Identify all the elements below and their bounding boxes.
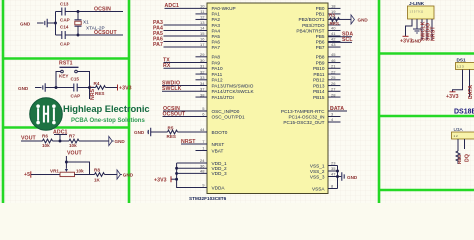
junction (NRST node)	[88, 81, 91, 100]
svg-text:PC13-TAMPER-RTC: PC13-TAMPER-RTC	[281, 109, 325, 114]
svg-text:J-LINK: J-LINK	[409, 1, 425, 6]
svg-text:PA7: PA7	[153, 42, 163, 48]
svg-text:GND: GND	[115, 139, 126, 144]
pin 20 PB2/BOOT1	[298, 15, 340, 23]
pin 9 VDDA	[202, 183, 225, 191]
pin 29 PA8	[200, 52, 220, 60]
svg-text:PC14-OSC32_IN: PC14-OSC32_IN	[289, 114, 325, 119]
pin 31 PA10	[200, 64, 223, 72]
svg-text:C15: C15	[71, 77, 80, 82]
ic name STM32F103C8T6	[189, 196, 227, 201]
svg-text:28: 28	[331, 92, 336, 97]
svg-text:1 2 3: 1 2 3	[457, 65, 464, 69]
pin 43 PB7	[316, 42, 341, 50]
svg-text:VSS_3: VSS_3	[310, 174, 325, 179]
pin 8 VSSA	[312, 184, 338, 192]
svg-text:40: 40	[331, 26, 336, 31]
svg-text:PB13: PB13	[313, 83, 325, 88]
pin 4 PC15-OSC32_OUT	[283, 117, 340, 125]
net label NRST (rotated)	[90, 85, 96, 100]
net label OCSOUT	[78, 30, 123, 36]
svg-text:10: 10	[200, 4, 205, 9]
svg-text:29: 29	[200, 52, 205, 57]
ground GND (crystal box)	[20, 19, 56, 28]
net label PA4	[153, 25, 207, 31]
pin 40 PB4/JNTRST	[296, 26, 340, 34]
junction vss rail dots	[336, 170, 339, 178]
svg-text:GND: GND	[123, 173, 134, 178]
svg-text:VDDA: VDDA	[212, 185, 226, 190]
svg-text:23: 23	[331, 161, 336, 166]
wire jlink pin4	[426, 19, 428, 40]
svg-text:44: 44	[200, 127, 205, 132]
wire VSS rail	[337, 166, 339, 189]
pin 10 PA0-WKUP	[200, 4, 236, 12]
svg-text:VSS_2: VSS_2	[310, 169, 325, 174]
svg-text:X1: X1	[83, 20, 89, 25]
resistor R9 (u3a, vertical)	[456, 151, 462, 164]
svg-text:21: 21	[331, 64, 336, 69]
svg-text:PA1: PA1	[212, 12, 221, 17]
pin 35 VSS_2	[310, 166, 338, 174]
junction (OCSOUT node)	[77, 34, 80, 37]
svg-text:VBAT: VBAT	[212, 148, 224, 153]
svg-text:12: 12	[200, 15, 205, 20]
net label TX	[163, 57, 207, 63]
capacitor C14	[56, 25, 79, 47]
net label PA5	[153, 31, 207, 37]
ic U3A title	[454, 127, 464, 132]
svg-text:GND: GND	[134, 130, 145, 135]
pin 6 OSC_OUT/PD1	[202, 112, 245, 120]
svg-text:R6: R6	[42, 134, 48, 139]
net label RX	[163, 63, 207, 69]
net label NRST (jlink, rotated)	[431, 26, 437, 41]
pin 13 PA3	[200, 20, 220, 28]
svg-text:PA5: PA5	[212, 34, 221, 39]
svg-text:41: 41	[331, 31, 336, 36]
power +3V3 (vdd)	[154, 176, 177, 183]
resistor R4	[90, 81, 118, 96]
ic U3A body	[452, 132, 474, 139]
wire jlink pin3	[421, 19, 423, 40]
wire u3a pin1	[457, 139, 459, 151]
svg-text:13: 13	[200, 20, 205, 25]
svg-text:47: 47	[331, 172, 336, 177]
svg-text:VSSA: VSSA	[312, 186, 325, 191]
pin 34 PA13/JTMS/SWDIO	[200, 81, 254, 89]
junction vdd rail dots	[175, 167, 178, 181]
logo watermark text	[63, 103, 150, 124]
svg-text:+5: +5	[24, 172, 30, 178]
junction (ADC1 node)	[59, 140, 62, 143]
pin 17 PA7	[200, 42, 220, 50]
svg-text:48: 48	[200, 169, 205, 174]
net label DATA	[330, 106, 347, 112]
svg-text:RES: RES	[330, 21, 339, 26]
net label DATA (ds1, rotated)	[468, 85, 474, 99]
svg-text:PB7: PB7	[316, 45, 325, 50]
svg-text:PB8: PB8	[316, 55, 325, 60]
net label NRST (mcu)	[181, 139, 207, 145]
svg-text:PA12: PA12	[212, 78, 224, 83]
pin stub PA15/JTDI	[196, 96, 208, 98]
wire ds1 pin1 to +3V3	[453, 70, 463, 92]
svg-text:OSC_IN/PD0: OSC_IN/PD0	[212, 109, 240, 114]
svg-text:PA14/JTCK/SWCLK: PA14/JTCK/SWCLK	[212, 89, 255, 94]
net label PA7	[153, 42, 207, 48]
pin stub PA8	[196, 56, 208, 58]
svg-text:+3V3: +3V3	[154, 177, 167, 183]
potentiometer VR1	[50, 164, 90, 177]
ground GND (vss)	[338, 172, 358, 181]
net label SWDIO (jlink, rotated)	[426, 23, 432, 41]
net label SWDIO	[162, 80, 207, 86]
power +3V3 (reset box)	[118, 85, 132, 92]
resistor R6	[21, 134, 67, 149]
wire GND to C15	[56, 87, 74, 89]
ic U1 STM32F103C8T6 body	[207, 3, 328, 194]
pin 32 PA11	[200, 69, 223, 77]
pin 1 VBAT	[196, 146, 224, 154]
svg-text:PC15-OSC32_OUT: PC15-OSC32_OUT	[283, 120, 324, 125]
svg-text:PA0-WKUP: PA0-WKUP	[212, 6, 236, 11]
ground GND arrow (R3)	[351, 15, 368, 24]
svg-text:1 2: 1 2	[454, 134, 459, 138]
net label ADC1	[165, 3, 208, 9]
ground GND (reset box)	[18, 83, 56, 92]
net label PA6	[153, 36, 207, 42]
net label VOUT (row1)	[21, 136, 37, 142]
junction (OCSIN node)	[77, 10, 80, 13]
power +5	[24, 171, 60, 178]
net label OCSIN (mcu)	[163, 106, 207, 112]
svg-text:DS18B20: DS18B20	[454, 109, 474, 116]
svg-text:BOOT0: BOOT0	[212, 130, 228, 135]
svg-text:34: 34	[200, 81, 205, 86]
capacitor C13	[56, 2, 79, 23]
pin 3 PC14-OSC32_IN	[289, 112, 341, 120]
svg-text:PB14: PB14	[313, 89, 325, 94]
resistor R8	[90, 168, 118, 183]
pin stub PA2	[196, 18, 208, 20]
section title DS18B20	[454, 109, 474, 116]
pin 42 PB6	[316, 37, 341, 45]
pin 37 PA14/JTCK/SWCLK	[200, 87, 254, 95]
pin stub PA11	[196, 73, 208, 75]
svg-text:37: 37	[200, 87, 205, 92]
pin 41 PB5	[316, 31, 341, 39]
pin 38 PA15/JTDI	[200, 92, 234, 100]
net label SWCLK (jlink, rotated)	[421, 21, 427, 41]
sensor DS1 title	[457, 58, 467, 63]
svg-text:22: 22	[331, 69, 336, 74]
net label OCSOUT (mcu)	[163, 111, 208, 117]
pin 12 PA2	[200, 15, 220, 23]
connector J-LINK title	[409, 1, 425, 6]
svg-text:PB6: PB6	[316, 39, 325, 44]
ground GND arrow (row1)	[103, 136, 125, 145]
ground GND arrow (row2)	[117, 170, 134, 179]
svg-text:PA4: PA4	[212, 28, 221, 33]
wire jlink pin5	[431, 19, 433, 40]
svg-text:32: 32	[200, 69, 205, 74]
svg-text:OSC_OUT/PD1: OSC_OUT/PD1	[212, 114, 245, 119]
svg-text:+3V3: +3V3	[119, 85, 132, 91]
svg-text:RES: RES	[457, 155, 462, 164]
svg-text:STM32F103C8T6: STM32F103C8T6	[189, 196, 227, 201]
svg-text:15: 15	[200, 31, 205, 36]
net label SCL	[328, 37, 353, 43]
svg-text:NRST: NRST	[212, 142, 225, 147]
svg-text:17: 17	[200, 42, 205, 47]
svg-text:PA6: PA6	[212, 39, 221, 44]
ground earth (jlink)	[411, 29, 422, 44]
power +3V3 (ds1)	[446, 92, 459, 100]
svg-text:46: 46	[331, 58, 336, 63]
svg-text:RST1: RST1	[59, 61, 73, 67]
svg-text:PA3: PA3	[212, 23, 221, 28]
svg-text:RES: RES	[95, 91, 104, 96]
crystal X1	[75, 12, 105, 36]
svg-text:1 3 5 7 9 11: 1 3 5 7 9 11	[410, 10, 424, 14]
svg-text:CAP: CAP	[60, 18, 70, 23]
svg-text:U3A: U3A	[454, 127, 464, 132]
svg-text:26: 26	[331, 81, 336, 86]
svg-text:R7: R7	[69, 134, 75, 139]
svg-text:30: 30	[200, 58, 205, 63]
power +3V3 (jlink)	[400, 36, 413, 44]
pin 14 PA4	[200, 26, 220, 34]
svg-text:Highleap Electronic: Highleap Electronic	[63, 103, 150, 114]
pin 16 PA6	[200, 37, 220, 45]
svg-text:38: 38	[200, 92, 205, 97]
svg-text:GND: GND	[358, 17, 369, 22]
connector JP1 J-LINK body	[408, 6, 435, 19]
ground GND (boot0)	[134, 128, 166, 137]
svg-text:OCSIN: OCSIN	[94, 7, 111, 13]
svg-text:PB3/JTDO: PB3/JTDO	[302, 23, 325, 28]
svg-text:R8: R8	[94, 168, 100, 173]
svg-text:10k: 10k	[69, 143, 77, 148]
svg-text:35: 35	[331, 166, 336, 171]
net label OCSIN	[78, 7, 123, 13]
pin 22 PB11	[313, 69, 340, 77]
svg-text:GND: GND	[347, 175, 358, 180]
net label VOUT (row2)	[66, 151, 82, 164]
svg-text:PB2/BOOT1: PB2/BOOT1	[298, 17, 324, 22]
svg-text:VSS_1: VSS_1	[310, 163, 325, 168]
resistor R3	[329, 13, 351, 26]
pin 25 PB12	[313, 75, 340, 83]
svg-text:25: 25	[331, 75, 336, 80]
svg-text:27: 27	[331, 87, 336, 92]
pin 36 VDD_2	[177, 163, 227, 171]
svg-text:14: 14	[200, 26, 205, 31]
svg-text:PB9: PB9	[316, 60, 325, 65]
net label ADC1 (box3)	[53, 130, 68, 142]
svg-text:GND: GND	[20, 22, 31, 27]
svg-text:10k: 10k	[42, 143, 50, 148]
pin stub PA12	[196, 79, 208, 81]
svg-text:31: 31	[200, 64, 205, 69]
svg-text:18: 18	[331, 4, 336, 9]
pin 21 PB10	[313, 64, 340, 72]
sensor DS1 body	[456, 63, 474, 70]
pin 27 PB14	[313, 87, 340, 95]
svg-text:PB0: PB0	[316, 6, 325, 11]
wire VDD rail	[177, 163, 207, 188]
svg-text:PA11: PA11	[212, 72, 223, 77]
svg-text:PB12: PB12	[313, 78, 325, 83]
pin 47 VSS_3	[310, 172, 338, 180]
wire ds1 pin2	[469, 70, 471, 98]
svg-text:PA15/JTDI: PA15/JTDI	[212, 95, 234, 100]
svg-text:KEY: KEY	[59, 74, 68, 79]
svg-text:CAP: CAP	[71, 94, 81, 99]
svg-text:PA2: PA2	[212, 17, 221, 22]
resistor R7	[67, 134, 109, 149]
net label SWCLK	[162, 86, 207, 92]
junction (rail/gnd)	[54, 22, 57, 25]
pin 48 VDD_3	[177, 169, 227, 177]
svg-text:PB11: PB11	[313, 72, 325, 77]
capacitor C15	[71, 77, 90, 99]
logo watermark circle	[30, 98, 63, 131]
net label (u3a, rotated)	[465, 154, 471, 162]
pin 46 PB9	[316, 58, 341, 66]
wire jlink pin1 to +3V3	[406, 19, 413, 36]
svg-text:VR1: VR1	[50, 169, 59, 174]
svg-text:10k: 10k	[76, 169, 84, 174]
svg-text:PB1: PB1	[316, 12, 325, 17]
pin 2 PC13-TAMPER-RTC	[281, 106, 341, 114]
pin 45 PB8	[316, 52, 341, 60]
svg-text:VOUT: VOUT	[67, 151, 83, 157]
pin 39 PB3/JTDO	[302, 20, 340, 28]
svg-text:PA7: PA7	[212, 45, 221, 50]
svg-text:PCBA One-stop Solutions: PCBA One-stop Solutions	[71, 118, 145, 124]
pin 26 PB13	[313, 81, 340, 89]
svg-text:GND: GND	[18, 86, 29, 91]
junction (VOUT wiper node)	[65, 161, 90, 175]
pushbutton RST1 / KEY	[56, 61, 90, 88]
svg-text:PB10: PB10	[313, 66, 325, 71]
svg-text:33: 33	[200, 75, 205, 80]
svg-text:PB15: PB15	[313, 95, 325, 100]
svg-text:PB5: PB5	[316, 34, 325, 39]
pin stub PA1	[196, 13, 208, 15]
net label PA3	[153, 20, 207, 26]
pin 33 PA12	[200, 75, 223, 83]
pin 24 VDD_1	[177, 158, 227, 166]
net label SDA	[328, 32, 353, 38]
pin 5 OSC_IN/PD0	[202, 106, 240, 114]
pin 15 PA5	[200, 31, 220, 39]
svg-text:PA10: PA10	[212, 66, 224, 71]
svg-text:DQ: DQ	[465, 154, 471, 162]
wire u3a pin2	[464, 139, 466, 149]
svg-text:43: 43	[331, 42, 336, 47]
pin 7 NRST	[202, 139, 224, 147]
pin 18 PB0	[316, 4, 341, 12]
pin 19 PB1	[316, 9, 341, 17]
resistor R5	[166, 126, 207, 140]
svg-text:PA8: PA8	[212, 55, 221, 60]
svg-text:C14: C14	[60, 25, 69, 30]
svg-text:VDD_3: VDD_3	[212, 171, 228, 176]
pin 30 PA9	[200, 58, 220, 66]
svg-text:PA9: PA9	[212, 60, 221, 65]
svg-text:16: 16	[200, 37, 205, 42]
svg-text:PA13/JTMS/SWDIO: PA13/JTMS/SWDIO	[212, 83, 254, 88]
svg-text:NRST: NRST	[431, 26, 437, 41]
svg-text:+3V3: +3V3	[446, 94, 459, 100]
svg-text:1K: 1K	[94, 178, 101, 183]
svg-text:DS1: DS1	[457, 58, 467, 63]
svg-text:PB4/JNTRST: PB4/JNTRST	[296, 28, 324, 33]
svg-text:CAP: CAP	[60, 42, 70, 47]
wire left rail	[55, 12, 57, 36]
svg-text:RES: RES	[167, 134, 176, 139]
svg-text:DATA: DATA	[468, 85, 474, 99]
wire jlink pin2 to gnd	[416, 19, 418, 29]
junction (button left leg)	[55, 86, 58, 89]
pin 23 VSS_1	[310, 161, 338, 169]
svg-text:42: 42	[331, 37, 336, 42]
pin 44 BOOT0	[200, 127, 228, 135]
svg-text:C13: C13	[60, 2, 69, 7]
svg-text:45: 45	[331, 52, 336, 57]
pin 28 PB15	[313, 92, 340, 100]
pin 11 PA1	[200, 9, 220, 17]
svg-text:OCSOUT: OCSOUT	[94, 30, 118, 36]
